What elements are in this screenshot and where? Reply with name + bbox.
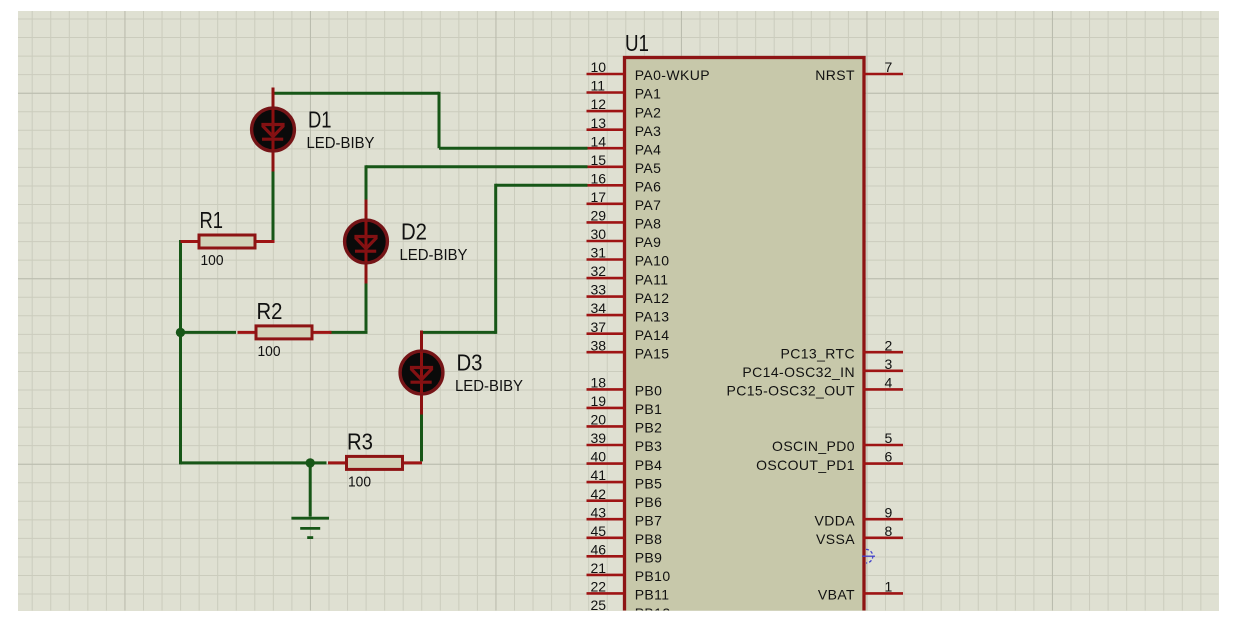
- svg-text:PA8: PA8: [635, 216, 662, 232]
- svg-text:PB12: PB12: [635, 605, 671, 621]
- svg-text:32: 32: [591, 263, 607, 279]
- svg-text:40: 40: [591, 449, 607, 465]
- svg-text:PB9: PB9: [635, 550, 663, 566]
- svg-text:38: 38: [591, 337, 607, 353]
- svg-text:PB11: PB11: [635, 587, 670, 603]
- svg-text:PA7: PA7: [635, 197, 662, 213]
- svg-text:PB1: PB1: [635, 401, 663, 417]
- svg-text:33: 33: [591, 282, 607, 298]
- svg-text:PB4: PB4: [635, 457, 663, 473]
- svg-text:1: 1: [885, 579, 893, 595]
- svg-text:OSCOUT_PD1: OSCOUT_PD1: [756, 457, 855, 473]
- svg-text:5: 5: [885, 430, 893, 446]
- svg-text:PA10: PA10: [635, 253, 670, 269]
- svg-text:PA13: PA13: [635, 308, 670, 324]
- svg-text:PC14-OSC32_IN: PC14-OSC32_IN: [742, 364, 855, 380]
- svg-text:VBAT: VBAT: [818, 587, 855, 603]
- svg-text:PA5: PA5: [635, 160, 662, 176]
- svg-text:18: 18: [591, 375, 607, 391]
- svg-text:100: 100: [201, 252, 224, 269]
- svg-text:22: 22: [591, 579, 607, 595]
- svg-text:25: 25: [591, 597, 607, 613]
- svg-text:PA11: PA11: [635, 271, 669, 287]
- svg-text:PA0-WKUP: PA0-WKUP: [635, 67, 710, 83]
- svg-text:43: 43: [591, 504, 607, 520]
- svg-text:11: 11: [591, 78, 606, 94]
- svg-text:14: 14: [591, 133, 607, 149]
- svg-text:PC13_RTC: PC13_RTC: [780, 345, 855, 361]
- svg-text:LED-BIBY: LED-BIBY: [400, 247, 468, 264]
- svg-text:R3: R3: [347, 429, 373, 455]
- svg-text:19: 19: [591, 393, 607, 409]
- svg-text:37: 37: [591, 319, 607, 335]
- svg-text:8: 8: [885, 523, 893, 539]
- svg-text:VSSA: VSSA: [816, 531, 855, 547]
- svg-text:PA12: PA12: [635, 290, 670, 306]
- svg-text:PA2: PA2: [635, 104, 662, 120]
- svg-text:R2: R2: [257, 298, 283, 324]
- svg-text:PB8: PB8: [635, 531, 663, 547]
- svg-text:15: 15: [591, 152, 607, 168]
- svg-text:17: 17: [591, 189, 607, 205]
- svg-text:PA1: PA1: [635, 86, 662, 102]
- svg-text:NRST: NRST: [815, 67, 855, 83]
- svg-text:45: 45: [591, 523, 607, 539]
- svg-text:PA4: PA4: [635, 141, 662, 157]
- svg-text:39: 39: [591, 430, 607, 446]
- svg-text:12: 12: [591, 96, 607, 112]
- svg-text:6: 6: [885, 449, 893, 465]
- svg-text:13: 13: [591, 115, 607, 131]
- svg-text:PB2: PB2: [635, 420, 663, 436]
- svg-text:31: 31: [591, 245, 607, 261]
- svg-text:20: 20: [591, 412, 607, 428]
- svg-text:PB10: PB10: [635, 568, 671, 584]
- svg-text:PB0: PB0: [635, 383, 663, 399]
- svg-text:PA6: PA6: [635, 179, 662, 195]
- svg-text:21: 21: [591, 560, 607, 576]
- svg-text:41: 41: [591, 467, 607, 483]
- svg-text:16: 16: [591, 170, 607, 186]
- svg-text:PB3: PB3: [635, 438, 663, 454]
- svg-text:46: 46: [591, 541, 607, 557]
- svg-text:7: 7: [885, 59, 893, 75]
- svg-text:100: 100: [258, 343, 281, 360]
- svg-text:LED-BIBY: LED-BIBY: [455, 378, 523, 395]
- svg-text:U1: U1: [625, 30, 649, 56]
- svg-text:9: 9: [885, 504, 893, 520]
- svg-text:PA14: PA14: [635, 327, 670, 343]
- svg-text:PB7: PB7: [635, 512, 663, 528]
- svg-text:3: 3: [885, 356, 893, 372]
- svg-text:OSCIN_PD0: OSCIN_PD0: [772, 438, 855, 454]
- svg-text:D1: D1: [308, 107, 332, 133]
- svg-text:PB5: PB5: [635, 475, 663, 491]
- svg-text:D3: D3: [457, 350, 483, 376]
- svg-text:10: 10: [591, 59, 607, 75]
- svg-text:2: 2: [885, 337, 893, 353]
- svg-text:D2: D2: [401, 219, 427, 245]
- svg-text:42: 42: [591, 486, 607, 502]
- svg-text:PA15: PA15: [635, 345, 670, 361]
- svg-text:R1: R1: [200, 207, 224, 233]
- svg-text:LED-BIBY: LED-BIBY: [307, 135, 375, 152]
- svg-text:34: 34: [591, 300, 607, 316]
- svg-text:100: 100: [348, 473, 371, 490]
- svg-text:PA9: PA9: [635, 234, 662, 250]
- svg-text:PB6: PB6: [635, 494, 663, 510]
- svg-text:PA3: PA3: [635, 123, 662, 139]
- svg-text:29: 29: [591, 208, 607, 224]
- svg-text:30: 30: [591, 226, 607, 242]
- svg-text:PC15-OSC32_OUT: PC15-OSC32_OUT: [726, 383, 855, 399]
- svg-text:VDDA: VDDA: [815, 512, 856, 528]
- svg-text:4: 4: [885, 375, 893, 391]
